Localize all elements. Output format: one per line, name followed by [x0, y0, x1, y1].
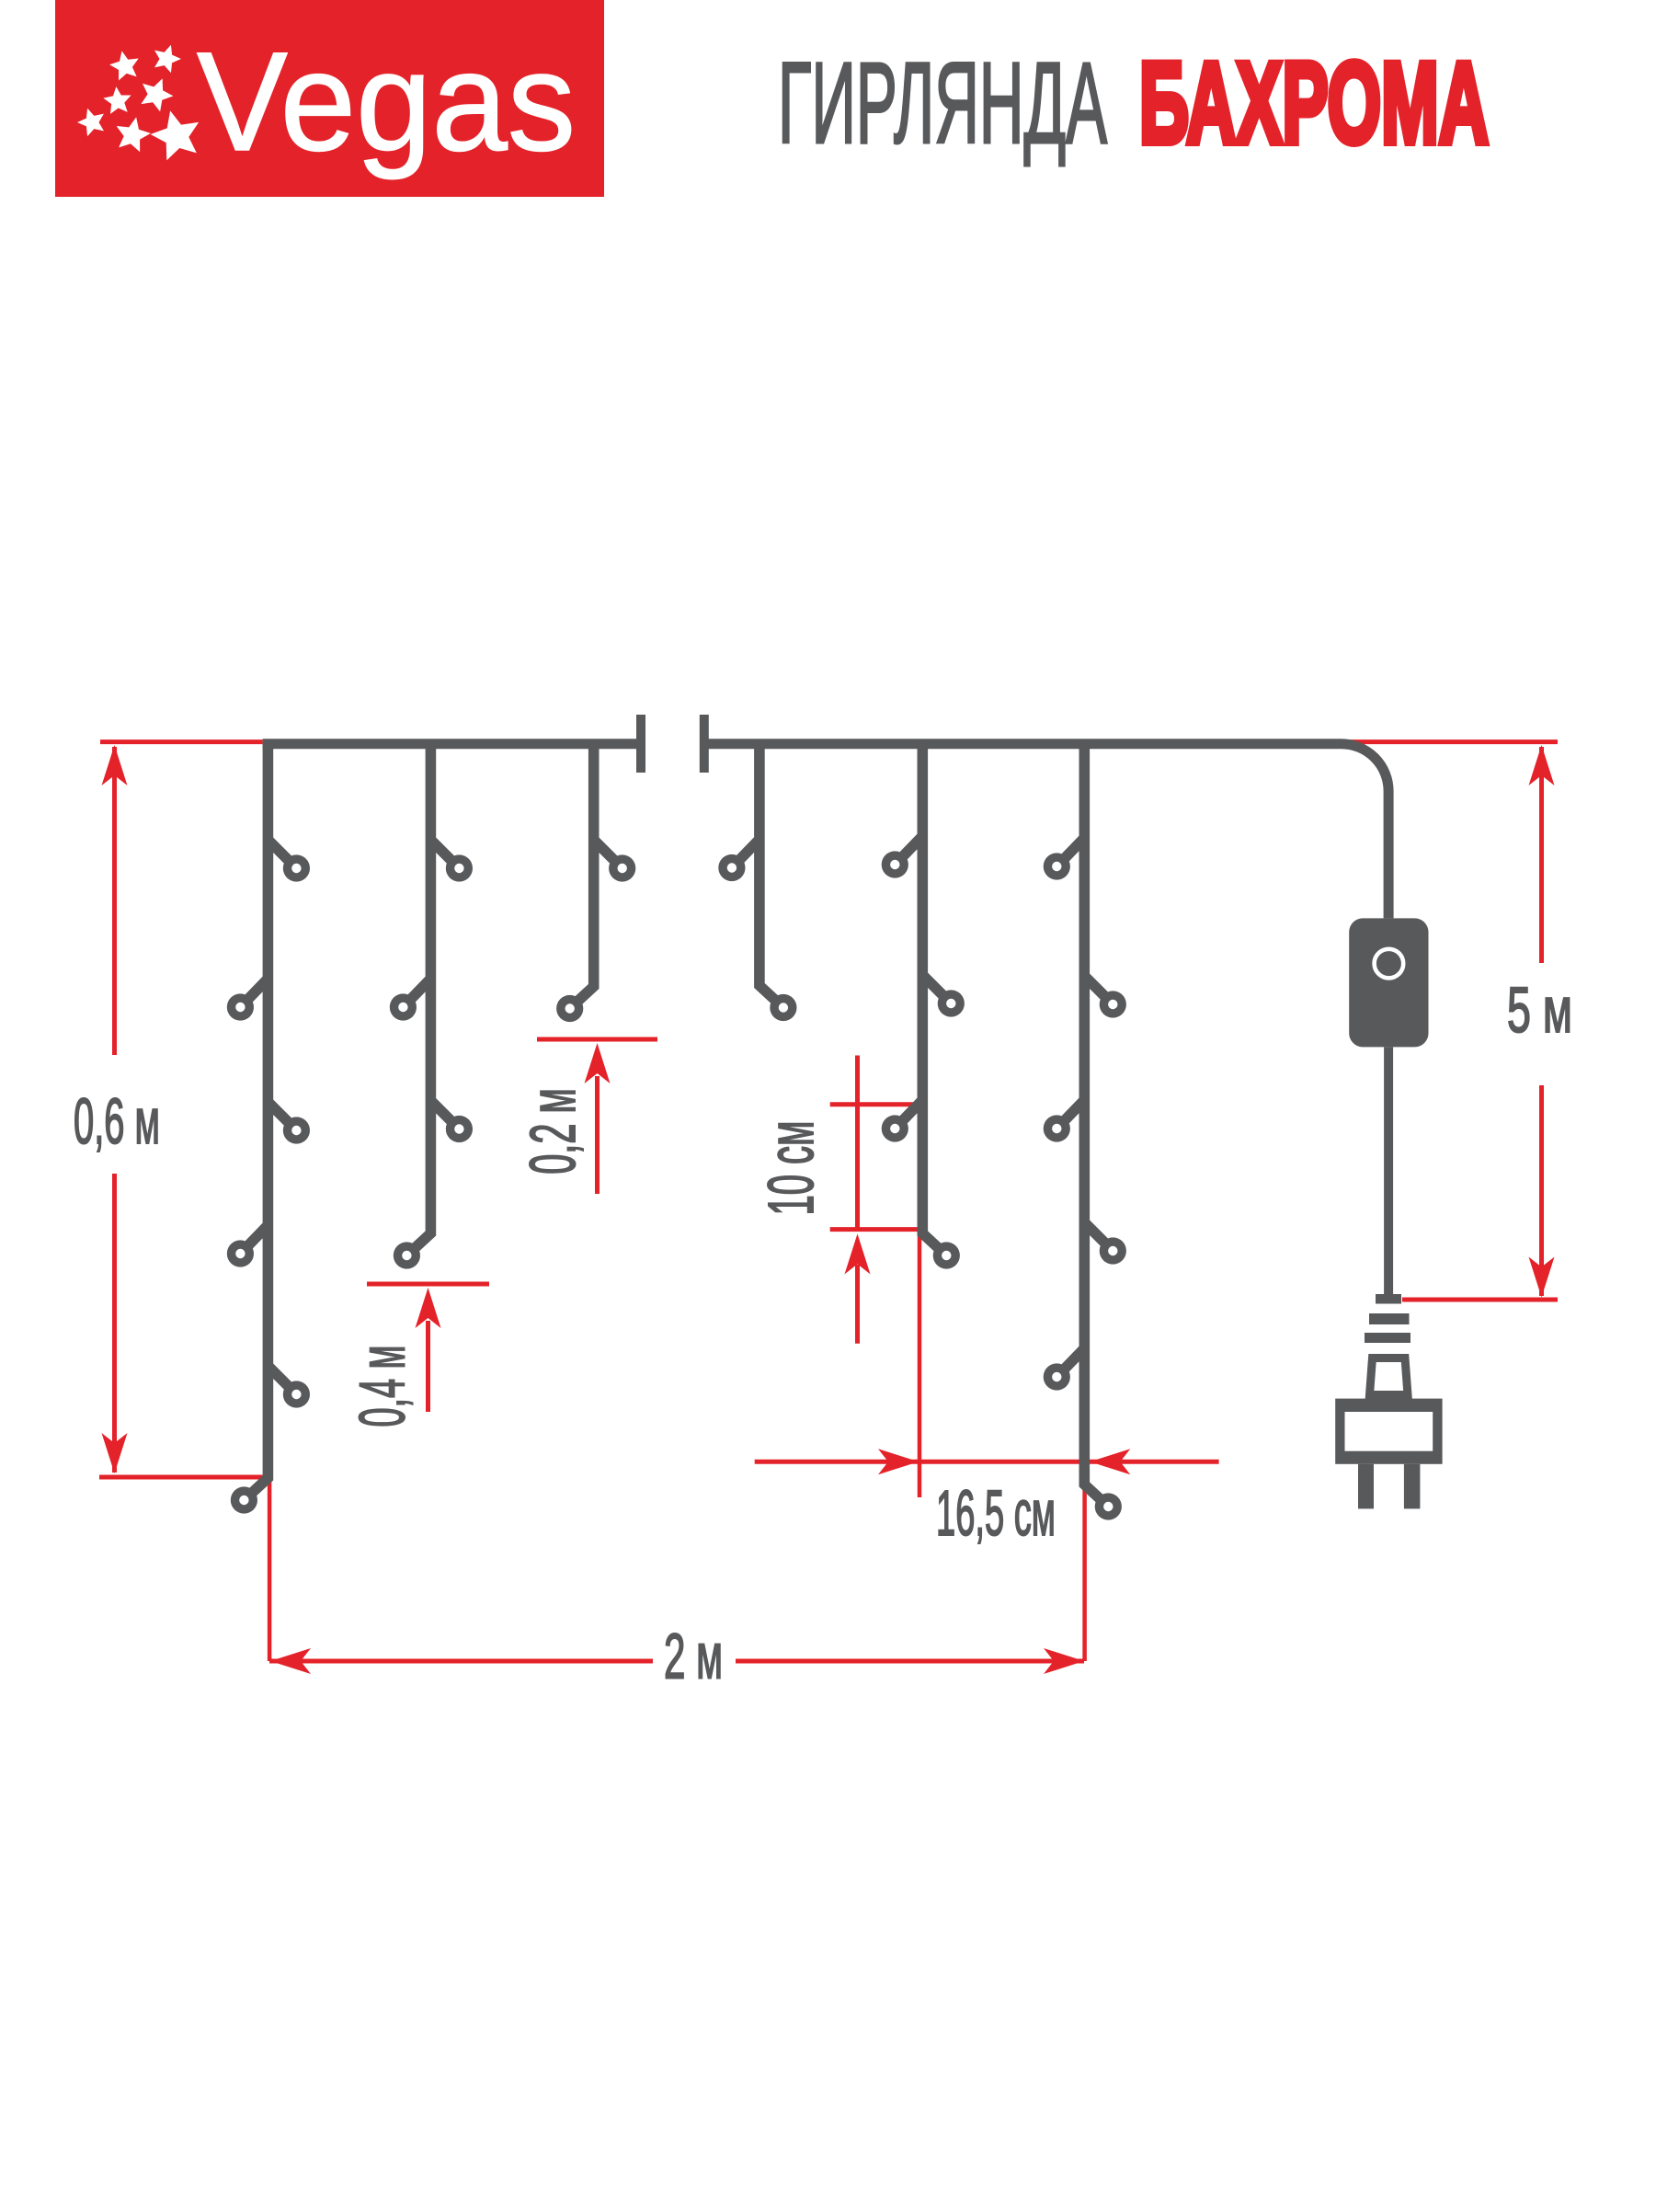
svg-text:16,5 см: 16,5 см	[936, 1477, 1056, 1549]
svg-text:10 см: 10 см	[755, 1121, 827, 1216]
svg-text:БАХРОМА: БАХРОМА	[1139, 40, 1489, 167]
svg-text:Vegas: Vegas	[197, 23, 576, 180]
svg-text:0,4 м: 0,4 м	[347, 1346, 418, 1427]
svg-text:2 м: 2 м	[664, 1621, 723, 1692]
svg-text:ГИРЛЯНДА: ГИРЛЯНДА	[778, 40, 1107, 167]
svg-text:0,2 м: 0,2 м	[517, 1088, 588, 1175]
svg-text:0,6 м: 0,6 м	[74, 1085, 160, 1157]
svg-text:5 м: 5 м	[1507, 974, 1572, 1046]
